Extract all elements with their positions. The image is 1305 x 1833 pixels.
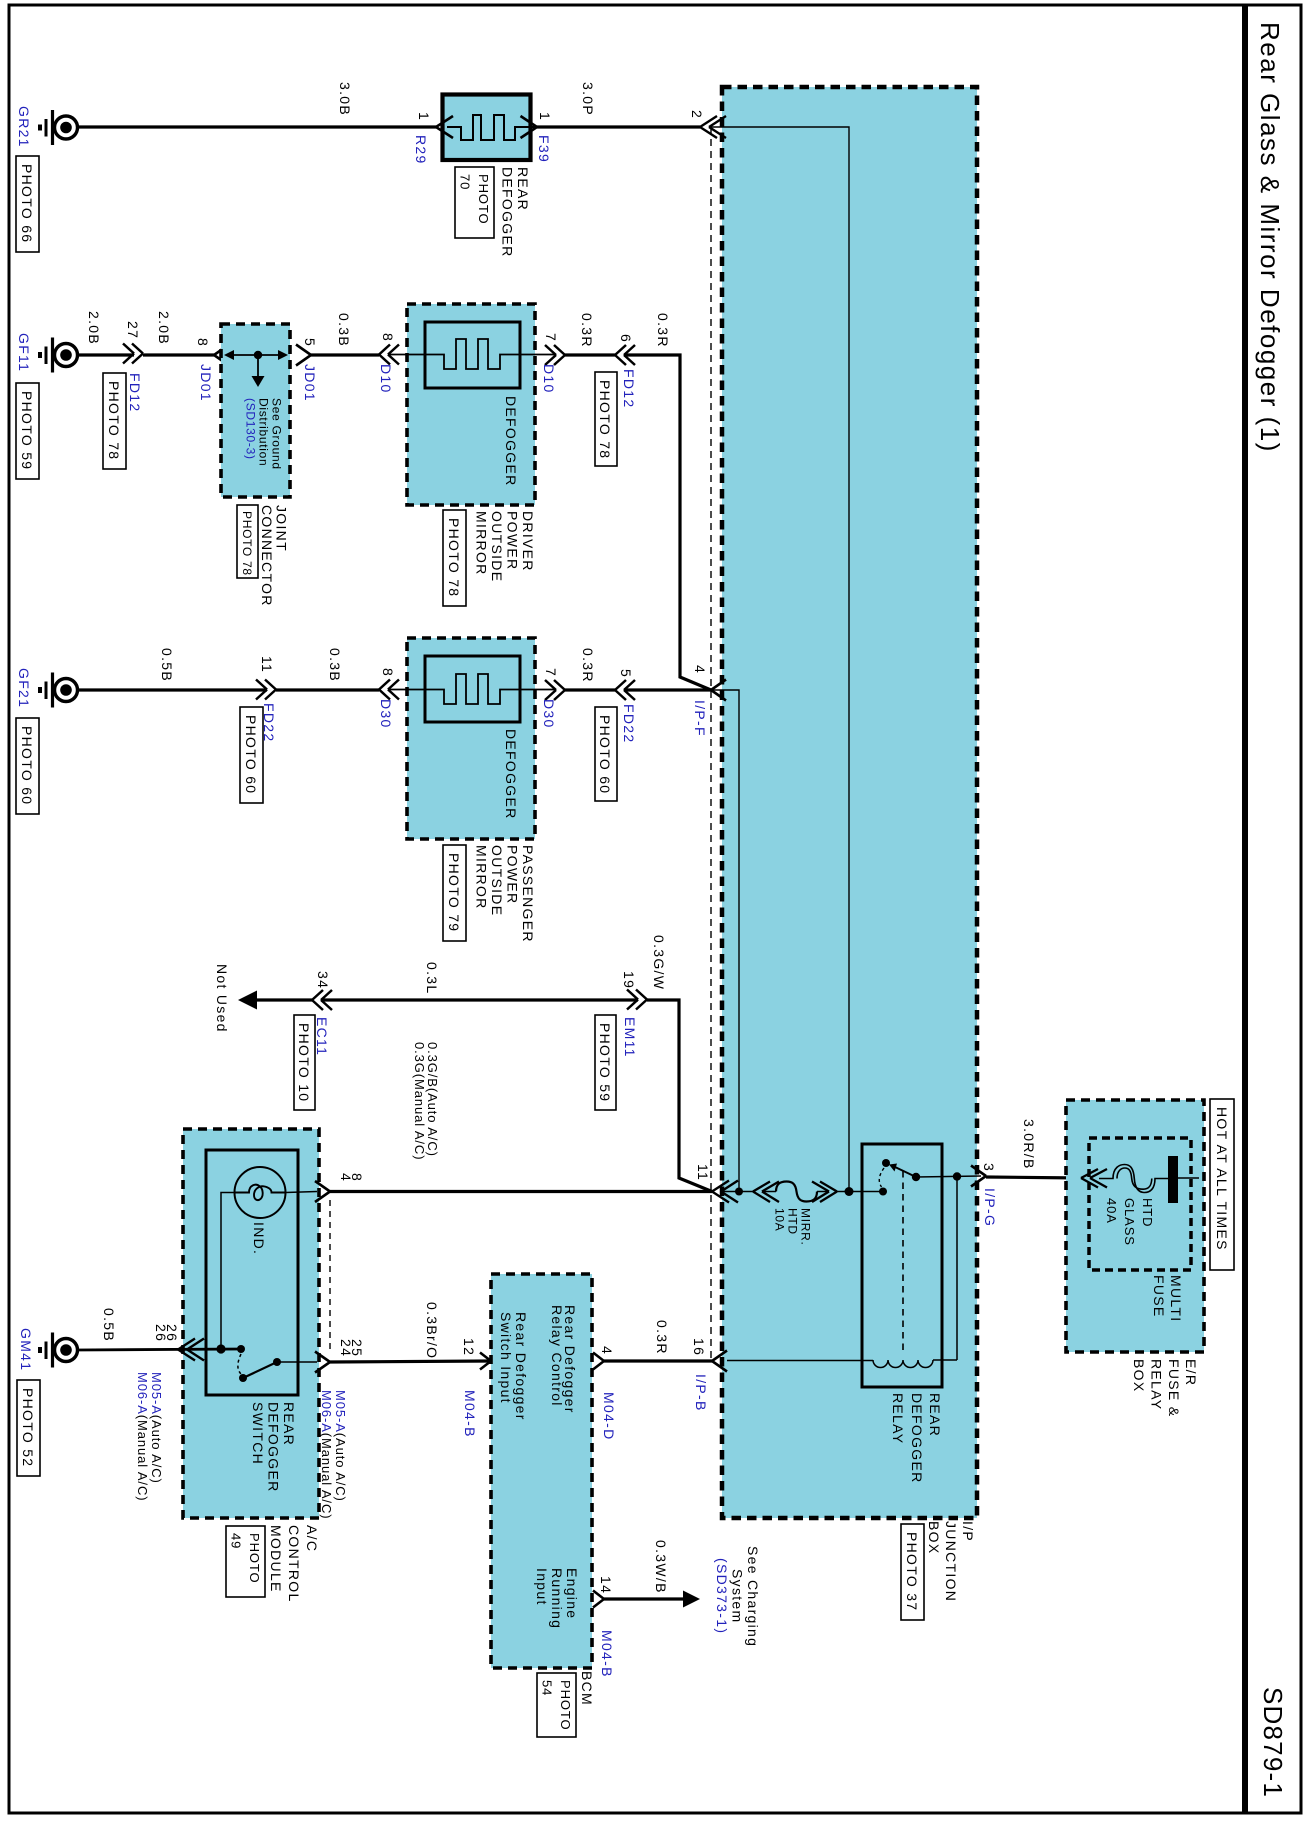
wire switch to junction pin 11	[330, 1190, 712, 1193]
svg-text:PHOTO: PHOTO	[247, 1533, 262, 1584]
wire relay to pin 3	[916, 1176, 981, 1177]
hot at all times box	[1210, 1099, 1234, 1270]
svg-text:D30: D30	[378, 699, 394, 729]
multi fuse label	[1151, 1275, 1184, 1322]
svg-text:D10: D10	[378, 364, 394, 394]
junction pin 3	[971, 1163, 998, 1227]
svg-text:0.3B: 0.3B	[336, 313, 352, 347]
fuse holder chevrons right	[812, 1182, 837, 1203]
svg-text:1: 1	[416, 112, 432, 121]
svg-text:7: 7	[543, 668, 559, 677]
node pin2 junction dot	[845, 1187, 854, 1196]
svg-text:14: 14	[598, 1576, 614, 1594]
svg-text:OUTSIDE: OUTSIDE	[489, 511, 505, 582]
svg-text:E/R: E/R	[1183, 1359, 1199, 1386]
relay output node	[953, 1172, 961, 1180]
svg-text:Distribution: Distribution	[257, 398, 271, 466]
svg-text:10A: 10A	[773, 1208, 787, 1231]
svg-text:HTD: HTD	[1140, 1198, 1155, 1227]
fuse holder chevrons left	[753, 1182, 779, 1203]
rear defogger switch inner box	[206, 1150, 298, 1395]
svg-text:PHOTO 59: PHOTO 59	[19, 391, 35, 470]
rear defogger relay box	[862, 1144, 942, 1387]
wire D10 to FD12 (0.3R) then bend to pin 4	[565, 355, 711, 690]
svg-text:CONNECTOR: CONNECTOR	[259, 505, 275, 607]
svg-text:PHOTO: PHOTO	[476, 174, 491, 225]
svg-text:OUTSIDE: OUTSIDE	[489, 845, 505, 916]
svg-text:PHOTO 78: PHOTO 78	[446, 518, 462, 597]
fusible element bar	[1168, 1156, 1178, 1203]
svg-text:GR21: GR21	[16, 106, 32, 148]
switch pin 25/24	[315, 1339, 365, 1373]
svg-text:Rear Glass & Mirror Defogger (: Rear Glass & Mirror Defogger (1)	[1255, 22, 1285, 453]
connector FD12 pin 27	[123, 321, 143, 412]
svg-text:MULTI: MULTI	[1168, 1275, 1184, 1322]
joint connector JD01 pin 5	[296, 338, 318, 402]
svg-text:PHOTO 60: PHOTO 60	[597, 715, 613, 794]
svg-text:0.3R: 0.3R	[654, 1320, 670, 1355]
svg-text:0.3G(Manual A/C): 0.3G(Manual A/C)	[412, 1042, 427, 1160]
svg-text:MIRROR: MIRROR	[474, 511, 490, 576]
junction connector dashed tie line pins 2-4-11-16	[710, 127, 712, 1361]
wire D30 to junction pin 4 (0.3R)	[565, 688, 711, 691]
svg-text:DRIVER: DRIVER	[520, 511, 536, 572]
wire: pin2 feed inside junction box	[709, 127, 849, 1191]
driver power outside mirror label	[474, 511, 537, 582]
svg-text:2.0B: 2.0B	[86, 311, 102, 345]
svg-text:FUSE: FUSE	[1151, 1275, 1167, 1318]
svg-text:POWER: POWER	[505, 845, 521, 904]
BCM pin 14 M04-B	[593, 1576, 615, 1678]
svg-text:DEFOGGER: DEFOGGER	[500, 167, 516, 258]
switch connector labels M05-A/M06-A right	[319, 1390, 348, 1519]
svg-text:JD01: JD01	[198, 364, 214, 402]
svg-text:BCM: BCM	[579, 1671, 595, 1706]
svg-text:27: 27	[125, 321, 141, 339]
pin 1 F39	[521, 112, 554, 163]
svg-text:M04-D: M04-D	[601, 1392, 617, 1441]
connector EC11 pin 34	[312, 971, 332, 1056]
ground GR21	[40, 110, 78, 145]
svg-text:See Charging: See Charging	[745, 1546, 761, 1647]
svg-text:Running: Running	[549, 1568, 565, 1629]
ground GF21	[40, 673, 78, 708]
wire: pin4 feed inside junction box	[711, 690, 739, 1191]
svg-text:POWER: POWER	[505, 511, 521, 570]
svg-text:2: 2	[689, 110, 705, 119]
passenger mirror defogger inner box	[425, 656, 520, 722]
photo 78 box row2 bottom	[443, 510, 466, 606]
svg-text:Relay Control: Relay Control	[549, 1305, 565, 1407]
svg-text:40A: 40A	[1104, 1198, 1119, 1224]
wire lamp to pin 8/4	[286, 1192, 318, 1193]
svg-text:0.3L: 0.3L	[424, 962, 440, 994]
mirror defogger D30 pin 8	[378, 668, 399, 729]
svg-text:BOX: BOX	[1131, 1359, 1147, 1392]
svg-text:PHOTO 78: PHOTO 78	[240, 511, 254, 576]
BCM pin 4 M04-D	[593, 1346, 617, 1441]
junction pin 2	[689, 110, 726, 138]
svg-text:26: 26	[153, 1324, 169, 1342]
junction pin 4	[692, 665, 726, 737]
svg-text:DEFOGGER: DEFOGGER	[503, 396, 519, 487]
svg-text:0.3B: 0.3B	[327, 648, 343, 682]
svg-text:I/P-B: I/P-B	[693, 1374, 709, 1412]
junction pin 16	[691, 1338, 727, 1412]
BCM box	[491, 1274, 592, 1668]
wire labels 0.3G/B 0.3G	[412, 1042, 440, 1160]
svg-text:8: 8	[195, 338, 211, 347]
svg-text:PHOTO 37: PHOTO 37	[904, 1532, 920, 1611]
wire F39 to junction pin 2 (3.0P)	[537, 125, 700, 128]
svg-text:HTD: HTD	[786, 1208, 800, 1235]
rear defogger switch label	[250, 1402, 297, 1493]
svg-text:MIRROR: MIRROR	[474, 845, 490, 910]
svg-text:GM41: GM41	[18, 1328, 34, 1371]
svg-text:RELAY: RELAY	[1149, 1359, 1165, 1410]
svg-text:0.5B: 0.5B	[101, 1308, 117, 1342]
svg-text:FD12: FD12	[621, 369, 637, 408]
svg-text:19: 19	[621, 971, 637, 989]
svg-text:Engine: Engine	[564, 1568, 580, 1619]
svg-text:M05-A(Auto A/C): M05-A(Auto A/C)	[149, 1372, 164, 1484]
svg-text:5: 5	[618, 669, 634, 678]
wire lamp to switch common	[221, 1193, 235, 1350]
wire GR21 to R29 (3.0B)	[77, 125, 436, 128]
junction pin 11	[695, 1164, 738, 1203]
svg-text:I/P: I/P	[960, 1521, 976, 1542]
svg-text:PHOTO: PHOTO	[558, 1680, 573, 1731]
svg-text:D10: D10	[541, 364, 557, 394]
svg-text:0.3R: 0.3R	[580, 648, 596, 683]
joint connector box	[221, 324, 290, 497]
rear defogger relay label	[890, 1393, 943, 1484]
svg-text:70: 70	[458, 174, 473, 190]
svg-text:M05-A(Auto A/C): M05-A(Auto A/C)	[333, 1390, 348, 1502]
svg-text:HOT AT ALL TIMES: HOT AT ALL TIMES	[1214, 1107, 1230, 1251]
svg-text:0.5B: 0.5B	[159, 648, 175, 682]
photo 49 box	[226, 1526, 265, 1597]
wire JD01 to D10 (0.3B)	[311, 353, 379, 356]
svg-text:2.0B: 2.0B	[156, 311, 172, 345]
passenger power outside mirror label	[474, 845, 537, 943]
svg-text:CONTROL: CONTROL	[286, 1525, 302, 1603]
photo 10 box	[294, 1015, 315, 1110]
photo 37 box	[901, 1524, 924, 1620]
svg-text:24: 24	[338, 1339, 354, 1357]
svg-text:Switch Input: Switch Input	[498, 1312, 514, 1404]
passenger mirror defogger grid	[388, 674, 556, 704]
driver mirror defogger box	[407, 304, 535, 505]
svg-text:49: 49	[229, 1533, 244, 1549]
svg-text:0.3W/B: 0.3W/B	[653, 1540, 669, 1594]
svg-text:0.3Br/O: 0.3Br/O	[424, 1302, 440, 1359]
joint connector JD01 pin 8	[195, 338, 229, 402]
svg-text:0.3R: 0.3R	[655, 313, 671, 348]
svg-text:REAR: REAR	[515, 167, 531, 211]
svg-text:M06-A(Manual A/C): M06-A(Manual A/C)	[135, 1372, 150, 1501]
driver mirror defogger grid	[388, 339, 556, 369]
see charging system note	[714, 1546, 761, 1647]
svg-text:Input: Input	[534, 1568, 550, 1606]
switch contacts	[216, 1344, 317, 1382]
BCM pin 12	[461, 1338, 491, 1438]
wire bar to box edge	[1178, 1177, 1199, 1179]
svg-text:PHOTO 60: PHOTO 60	[243, 715, 259, 794]
a/c control module label	[268, 1525, 320, 1603]
svg-text:PASSENGER: PASSENGER	[520, 845, 536, 943]
svg-text:(SD130-3): (SD130-3)	[244, 398, 258, 460]
joint connector label	[259, 505, 290, 607]
svg-text:PHOTO 59: PHOTO 59	[597, 1023, 613, 1102]
mirror defogger D30 pin 7	[541, 668, 565, 729]
rear defogger switch box	[183, 1129, 319, 1518]
I/P junction box	[722, 87, 977, 1518]
driver mirror defogger inner box	[425, 322, 520, 388]
svg-text:M04-B: M04-B	[599, 1630, 615, 1678]
svg-text:IND.: IND.	[251, 1222, 267, 1255]
photo 59 box right	[595, 1015, 616, 1110]
charging system arrow	[683, 1591, 700, 1608]
pin 1 R29	[413, 112, 453, 165]
relay actuator dashed	[902, 1171, 904, 1352]
wire GF11 to JD01 (2.0B)	[77, 353, 214, 356]
svg-text:54: 54	[540, 1680, 555, 1696]
switch connector dashed link	[329, 1200, 331, 1352]
wire relay output to coil	[956, 1177, 958, 1361]
svg-text:PHOTO 78: PHOTO 78	[597, 380, 613, 459]
svg-text:11: 11	[259, 656, 275, 673]
svg-text:4: 4	[599, 1346, 615, 1355]
photo 70 box	[455, 167, 494, 238]
svg-text:7: 7	[543, 333, 559, 342]
svg-text:PHOTO 10: PHOTO 10	[296, 1023, 312, 1102]
svg-text:4: 4	[338, 1173, 354, 1182]
svg-text:0.3G/W: 0.3G/W	[651, 935, 667, 990]
svg-text:RELAY: RELAY	[890, 1393, 906, 1444]
svg-text:Not Used: Not Used	[214, 964, 230, 1033]
title separator bar	[1242, 4, 1248, 1813]
wire pin3 to E/R box (3.0R/B)	[986, 1177, 1081, 1178]
svg-text:5: 5	[302, 338, 318, 347]
svg-text:(SD373-1): (SD373-1)	[714, 1558, 730, 1634]
svg-text:See Ground: See Ground	[270, 398, 284, 470]
svg-text:PHOTO 79: PHOTO 79	[446, 853, 462, 932]
svg-text:A/C: A/C	[304, 1525, 320, 1552]
wire GF21 to D30 (0.5B 0.3B)	[77, 688, 379, 691]
svg-text:PHOTO 60: PHOTO 60	[19, 726, 35, 805]
I/P junction box label	[926, 1521, 976, 1602]
switch pin 8/4	[315, 1173, 365, 1202]
wire BCM to junction pin 16 (0.3R)	[604, 1359, 712, 1362]
svg-text:3: 3	[981, 1163, 997, 1172]
svg-text:M06-A(Manual A/C): M06-A(Manual A/C)	[319, 1390, 334, 1519]
svg-text:6: 6	[618, 334, 634, 343]
relay coil	[727, 1360, 957, 1368]
svg-text:I/P-G: I/P-G	[982, 1188, 998, 1227]
svg-text:D30: D30	[541, 699, 557, 729]
svg-text:PHOTO 66: PHOTO 66	[19, 164, 35, 243]
connector FD22 pin 5	[615, 669, 637, 743]
svg-text:GF21: GF21	[16, 668, 32, 708]
switch pin 26/26	[153, 1324, 204, 1361]
not used arrow	[238, 991, 257, 1010]
photo 78 box joint	[237, 505, 258, 578]
svg-text:3.0B: 3.0B	[337, 82, 353, 116]
ground GM41	[40, 1333, 78, 1368]
BCM switch input label	[498, 1312, 529, 1421]
svg-text:3.0R/B: 3.0R/B	[1021, 1119, 1037, 1170]
mirror defogger D10 pin 8	[378, 333, 399, 394]
photo 52 box	[17, 1380, 40, 1476]
svg-text:0.3R: 0.3R	[579, 313, 595, 348]
svg-text:MODULE: MODULE	[268, 1525, 284, 1593]
svg-text:1: 1	[537, 112, 553, 121]
relay contact	[879, 1159, 920, 1196]
svg-text:DEFOGGER: DEFOGGER	[503, 729, 519, 820]
BCM relay control label	[549, 1305, 578, 1414]
photo 60 box right	[595, 707, 617, 801]
wire GM41 to switch (0.5B)	[77, 1349, 241, 1350]
mirror defogger D10 pin 7	[541, 333, 565, 394]
svg-text:EC11: EC11	[314, 1017, 330, 1056]
E/R fuse relay box label	[1131, 1359, 1199, 1417]
svg-text:I/P-F: I/P-F	[692, 700, 708, 737]
rear defogger element box	[443, 95, 531, 161]
svg-text:SWITCH: SWITCH	[250, 1402, 266, 1465]
svg-text:BOX: BOX	[926, 1521, 942, 1554]
E/R fuse and relay box	[1066, 1100, 1204, 1352]
wire EC11 to EM11 (0.3L) then bend to pin 11	[257, 1000, 712, 1192]
node pin4 junction dot	[735, 1188, 743, 1196]
svg-text:MIRR.: MIRR.	[799, 1208, 813, 1246]
indicator lamp IND	[235, 1167, 286, 1255]
svg-text:PHOTO 52: PHOTO 52	[20, 1388, 36, 1467]
svg-text:3.0P: 3.0P	[580, 82, 596, 116]
rear defogger grid symbol	[447, 115, 537, 140]
photo 78 box left	[103, 373, 126, 469]
BCM engine running input label	[534, 1568, 580, 1629]
multi fuse inner box	[1089, 1138, 1191, 1270]
E/R box entry chevrons	[1081, 1169, 1107, 1188]
connector FD22 pin 11	[256, 656, 277, 742]
svg-text:EM11: EM11	[622, 1017, 638, 1058]
svg-text:M04-B: M04-B	[462, 1390, 478, 1438]
ground GF11	[40, 338, 78, 373]
svg-text:FD22: FD22	[621, 704, 637, 743]
photo 60 box left	[16, 718, 39, 814]
svg-text:DEFOGGER: DEFOGGER	[909, 1393, 925, 1484]
wire engine running (0.3W/B)	[604, 1597, 684, 1600]
svg-text:12: 12	[461, 1338, 477, 1356]
svg-text:34: 34	[315, 971, 331, 989]
photo 59 box	[16, 383, 39, 479]
joint connector bus arrow	[224, 350, 288, 387]
svg-text:16: 16	[691, 1338, 707, 1356]
photo 78 box right	[595, 372, 617, 466]
connector FD12 pin 6	[615, 334, 637, 408]
photo 66 box	[16, 156, 39, 252]
rear defogger component label	[500, 167, 532, 258]
svg-text:F39: F39	[536, 135, 552, 163]
svg-text:FD12: FD12	[127, 373, 143, 412]
svg-text:JUNCTION: JUNCTION	[943, 1521, 959, 1602]
see ground distribution note	[244, 398, 284, 470]
svg-text:DEFOGGER: DEFOGGER	[266, 1402, 282, 1493]
svg-text:FUSE &: FUSE &	[1166, 1359, 1182, 1417]
svg-text:Rear Defogger: Rear Defogger	[513, 1312, 529, 1421]
wire switch to BCM (0.3Br/O)	[330, 1361, 491, 1362]
svg-text:GLASS: GLASS	[1122, 1198, 1137, 1246]
svg-text:8: 8	[380, 668, 396, 677]
fuse MIRR HTD 10A	[773, 1182, 818, 1246]
svg-text:4: 4	[692, 665, 708, 674]
svg-text:REAR: REAR	[927, 1393, 943, 1437]
svg-text:PHOTO 78: PHOTO 78	[106, 381, 122, 460]
photo 60 box mid	[240, 707, 263, 803]
svg-text:SD879-1: SD879-1	[1258, 1687, 1288, 1798]
svg-text:REAR: REAR	[281, 1402, 297, 1446]
svg-text:11: 11	[695, 1164, 711, 1181]
svg-text:GF11: GF11	[16, 333, 32, 372]
svg-text:JD01: JD01	[302, 364, 318, 402]
switch connector labels M05-A/M06-A left	[135, 1372, 164, 1501]
wire pin11 to relay	[721, 1191, 883, 1193]
svg-text:R29: R29	[413, 135, 429, 165]
fuse HTD GLASS 40A	[1099, 1165, 1168, 1246]
photo 79 box	[443, 845, 466, 941]
svg-text:System: System	[730, 1569, 746, 1623]
connector EM11 pin 19	[621, 971, 647, 1058]
svg-text:8: 8	[380, 333, 396, 342]
photo 54 box	[537, 1673, 576, 1737]
passenger mirror defogger box	[407, 638, 535, 839]
